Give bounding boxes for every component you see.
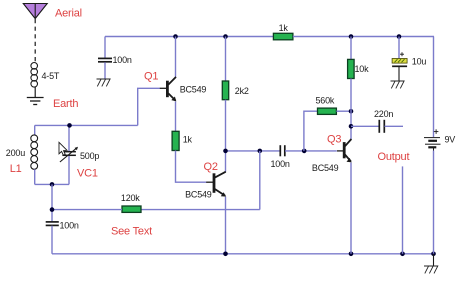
- capacitor 100n (decoupling top left): [98, 58, 112, 79]
- resistor 120k: [122, 206, 141, 212]
- wire: +V bus left segment: [105, 36, 273, 38]
- svg-text:Output: Output: [378, 151, 410, 163]
- junction dot 560k/10k: [349, 109, 354, 114]
- capacitor 100n (interstage): [280, 145, 285, 156]
- junction dot 10k top: [349, 34, 354, 39]
- junction dot tank top: [67, 123, 72, 128]
- svg-text:BC549: BC549: [185, 190, 212, 200]
- wire: 560k riser: [304, 111, 318, 151]
- svg-text:Aerial: Aerial: [55, 8, 82, 20]
- svg-text:1k: 1k: [279, 23, 289, 33]
- svg-text:100n: 100n: [60, 221, 79, 231]
- earth ground symbol: [27, 98, 44, 105]
- wire: tank top horizontal: [35, 124, 138, 126]
- svg-text:Q1: Q1: [144, 71, 158, 83]
- wire: ground stub: [433, 254, 435, 266]
- aerial dashed lead wire: [34, 19, 36, 63]
- inductor 4-5T coil: [31, 63, 38, 88]
- transistor Q2: [206, 172, 226, 197]
- label + (battery): [434, 129, 439, 134]
- svg-text:4-5T: 4-5T: [42, 71, 60, 81]
- svg-text:9V: 9V: [445, 135, 456, 145]
- junction dot collector node: [223, 149, 228, 154]
- svg-text:BC549: BC549: [180, 85, 207, 95]
- wire: 2k2 top lead: [225, 37, 227, 82]
- wire: Q3 emitter: [350, 163, 352, 254]
- svg-text:Q2: Q2: [204, 161, 218, 173]
- svg-text:Earth: Earth: [53, 98, 78, 110]
- inductor L1: [31, 125, 38, 184]
- svg-text:Q3: Q3: [327, 134, 341, 146]
- wire: 220n to output terminal: [385, 125, 404, 127]
- resistor 2k2: [222, 81, 228, 100]
- wire: tank tap down: [51, 184, 53, 221]
- wire: 10u bottom lead: [398, 67, 400, 82]
- wire: Q1 emitter to 1k: [175, 102, 177, 132]
- svg-text:VC1: VC1: [77, 168, 98, 180]
- label + (10u polarity): [400, 52, 404, 56]
- wire: feedback run right: [141, 209, 260, 211]
- svg-text:100n: 100n: [271, 159, 290, 169]
- junction dot Q1 collector: [173, 34, 178, 39]
- wire: 10k bottom to Q3 collector: [350, 79, 352, 140]
- wire: Q1 collector: [175, 37, 177, 77]
- battery B1: [424, 138, 441, 151]
- aerial antenna symbol: [23, 4, 47, 19]
- svg-text:560k: 560k: [316, 95, 335, 105]
- svg-text:500p: 500p: [80, 151, 99, 161]
- junction dot Q3 collector node: [349, 124, 354, 129]
- svg-text:1k: 1k: [183, 135, 193, 145]
- wire: feedback riser: [259, 151, 261, 210]
- wire: bottom bus: [52, 253, 434, 255]
- wire: feedback run left: [52, 209, 122, 211]
- wire: 560k right: [336, 110, 351, 112]
- wire: riser to Q1 base: [138, 88, 161, 125]
- wire: right bus bottom: [433, 151, 435, 254]
- capacitor 220n: [379, 120, 384, 133]
- wire: 2k2 bottom to Q2 collector: [225, 100, 227, 172]
- capacitor 10u electrolytic: [392, 59, 407, 67]
- wire: +V bus right segment: [293, 36, 434, 38]
- svg-text:220n: 220n: [374, 109, 393, 119]
- svg-text:BC549: BC549: [312, 163, 339, 173]
- junction dot Q2 emitter: [223, 252, 228, 257]
- wire: collector node to coupling cap: [226, 150, 281, 152]
- wire: output return stub: [402, 166, 404, 253]
- junction dot feedback left: [50, 207, 55, 212]
- chassis ground under 10u: [391, 81, 405, 88]
- wire: right bus top: [433, 37, 435, 138]
- wire: tank bottom horizontal: [35, 183, 69, 185]
- wire: cap to bottom bus: [51, 226, 53, 254]
- resistor 1k (emitter): [172, 131, 179, 150]
- wire: bus drop to 100n: [104, 37, 106, 59]
- capacitor 100n (lower left): [46, 222, 59, 226]
- resistor 10k: [348, 59, 355, 78]
- svg-text:10k: 10k: [355, 64, 370, 74]
- junction dot output stub: [400, 252, 405, 257]
- variable capacitor VC1: [60, 125, 78, 184]
- junction dot Q3 emitter: [349, 252, 354, 257]
- wire coil to earth: [34, 87, 36, 97]
- svg-text:2k2: 2k2: [235, 86, 249, 96]
- svg-text:10u: 10u: [412, 57, 427, 67]
- chassis ground under 100n: [97, 79, 111, 86]
- wire: output node to 220n: [351, 125, 379, 127]
- transistor Q3: [337, 139, 352, 162]
- junction dot 10u top: [397, 34, 402, 39]
- wire: 10u top lead: [398, 37, 400, 59]
- svg-text:200u: 200u: [6, 148, 25, 158]
- transistor Q1: [160, 77, 177, 102]
- wire: cap to Q3 base: [285, 150, 337, 152]
- wire: 10k top lead: [350, 37, 352, 60]
- resistor 1k (supply): [273, 33, 293, 40]
- svg-text:See Text: See Text: [111, 226, 152, 238]
- junction dot feedback node: [258, 149, 263, 154]
- junction dot 2k2 top: [223, 34, 228, 39]
- resistor 560k: [318, 108, 337, 114]
- wire: Q2 emitter: [225, 197, 227, 254]
- junction dot battery negative: [431, 252, 436, 257]
- svg-text:100n: 100n: [113, 55, 132, 65]
- junction dot 560k riser: [302, 149, 307, 154]
- chassis ground bottom right: [424, 266, 438, 273]
- svg-text:120k: 120k: [121, 193, 140, 203]
- mouse cursor: [59, 142, 67, 155]
- junction dot tank bottom tap: [50, 182, 55, 187]
- wire: 1k bottom to Q2 base: [176, 151, 207, 183]
- svg-text:L1: L1: [10, 163, 22, 175]
